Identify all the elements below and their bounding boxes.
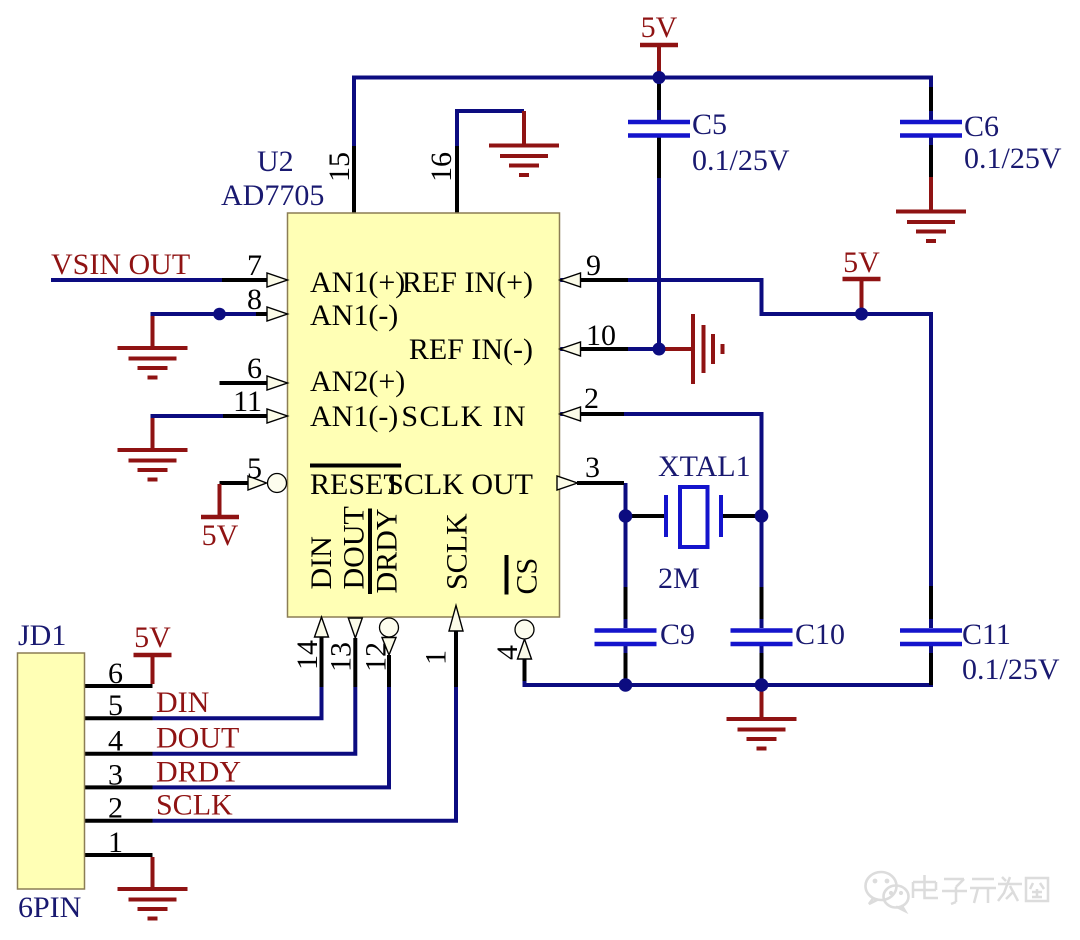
arrow U2 pin1 xyxy=(449,606,463,632)
svg-text:6: 6 xyxy=(108,657,123,690)
svg-text:2: 2 xyxy=(584,382,599,415)
pin stub U2 pin5 xyxy=(220,481,249,485)
ground stem below C10 xyxy=(760,687,764,718)
svg-text:5V: 5V xyxy=(641,11,678,44)
pin stub U2 pin10 xyxy=(580,347,628,351)
wire ground to U2 pin11 xyxy=(153,416,268,421)
arrow U2 pin4 xyxy=(518,639,532,659)
watermark char 2 (zi) xyxy=(942,879,967,904)
wire SCLK net JD1 pin2 to U2 pin1 xyxy=(153,687,457,821)
WIRES_NAVY xyxy=(51,78,931,821)
watermark char 5 (quan) xyxy=(1026,878,1048,901)
pin stub JD1 pin5 xyxy=(85,716,153,720)
ground symbol below C10 xyxy=(727,719,797,749)
svg-text:C6: C6 xyxy=(964,110,999,143)
capacitor C11 plates xyxy=(900,631,962,645)
U2 pin name DRDY overline (rotated) xyxy=(368,509,372,595)
svg-text:REF IN(+): REF IN(+) xyxy=(402,266,533,299)
wire U2 pin16 to ground stem xyxy=(457,111,524,213)
pin stub U2 pin9 xyxy=(580,278,628,282)
capacitor C9 plates xyxy=(595,631,657,645)
svg-text:7: 7 xyxy=(247,249,262,282)
pin stub JD1 pin4 xyxy=(85,752,153,756)
wire U2 pin10 to C5 bottom / ground junction xyxy=(560,347,659,351)
pin stub C10 top xyxy=(760,587,764,619)
capacitor C6 plates xyxy=(900,122,962,136)
ground symbol rotated at REF IN(-) xyxy=(693,314,723,384)
wire C5 bottom lead down to pin10 junction xyxy=(657,138,661,350)
svg-text:VSIN OUT: VSIN OUT xyxy=(51,248,190,281)
pin stub U2 pin4 xyxy=(523,659,527,681)
svg-text:2M: 2M xyxy=(658,562,700,595)
pin stub C6 top xyxy=(929,87,933,111)
pin stub C9 bottom xyxy=(624,653,628,685)
power bar 5V at U2 pin5 xyxy=(201,515,239,520)
wire DOUT net JD1 pin4 to U2 pin13 xyxy=(153,687,356,754)
svg-text:0.1/25V: 0.1/25V xyxy=(692,144,790,177)
pin stub XTAL1 right xyxy=(721,514,758,518)
svg-text:6PIN: 6PIN xyxy=(18,891,81,924)
wire ground to U2 pin8 xyxy=(153,314,268,319)
svg-text:5V: 5V xyxy=(134,621,171,654)
arrow U2 pin7 xyxy=(267,273,288,287)
arrow U2 pin3 (output) xyxy=(557,476,578,490)
pin stub U2 pin12 xyxy=(387,655,391,687)
U2 pin name RESET overline xyxy=(310,464,401,468)
svg-text:AN1(-): AN1(-) xyxy=(310,299,398,332)
svg-text:15: 15 xyxy=(323,152,356,182)
pin stub C10 bottom xyxy=(760,653,764,685)
5V stem right rail xyxy=(860,280,864,311)
crystal XTAL1 xyxy=(666,487,721,547)
arrow U2 pin11 xyxy=(267,409,288,423)
wire VSIN OUT to U2 pin7 xyxy=(51,278,267,282)
5V stem top rail xyxy=(657,45,661,74)
junction dot 5V right rail xyxy=(855,308,868,321)
svg-text:SCLK OUT: SCLK OUT xyxy=(387,468,533,501)
svg-text:5V: 5V xyxy=(843,246,880,279)
svg-text:8: 8 xyxy=(247,283,262,316)
pin stub U2 pin8 xyxy=(256,312,267,316)
svg-text:XTAL1: XTAL1 xyxy=(658,450,751,483)
arrow U2 pin2 xyxy=(560,407,581,421)
pin stub C6 bottom xyxy=(929,145,933,177)
capacitor C5 plates xyxy=(628,122,690,136)
svg-text:6: 6 xyxy=(247,352,262,385)
junction dot on U2 pin8 wire xyxy=(213,308,226,321)
svg-text:4: 4 xyxy=(108,725,123,758)
svg-text:2: 2 xyxy=(108,792,123,825)
5V stem at JD1 pin6 xyxy=(151,657,155,684)
U2 pin name CS overline (rotated) xyxy=(505,555,509,595)
junction dot XTAL1 right xyxy=(755,509,769,523)
svg-text:DRDY: DRDY xyxy=(156,755,241,788)
svg-text:10: 10 xyxy=(586,319,616,352)
svg-text:1: 1 xyxy=(108,826,123,859)
svg-text:5: 5 xyxy=(247,452,262,485)
svg-text:AD7705: AD7705 xyxy=(221,179,324,212)
svg-text:C9: C9 xyxy=(660,618,695,651)
arrow U2 pin14 xyxy=(315,617,329,637)
ground symbol at U2 pin16 net xyxy=(489,146,559,176)
svg-text:DIN: DIN xyxy=(156,686,209,719)
arrow U2 pin13 (output) xyxy=(348,618,362,638)
pin stub U2 pin2 xyxy=(580,412,624,416)
svg-text:SCLK: SCLK xyxy=(156,789,233,822)
inversion bubble U2 pin12 xyxy=(380,618,399,637)
wire DRDY net JD1 pin3 to U2 pin12 xyxy=(153,687,390,787)
arrow U2 pin8 xyxy=(267,307,288,321)
pin stub U2 pin14 xyxy=(320,637,324,687)
pin stub U2 pin7 xyxy=(222,278,267,282)
pin stub C5 bottom xyxy=(657,138,661,179)
ground stem U2 pin8 xyxy=(151,316,155,347)
WATERMARK xyxy=(866,872,909,911)
watermark char 3 (kai) xyxy=(970,879,996,903)
svg-text:9: 9 xyxy=(586,249,601,282)
wire U2 pin2 to XTAL1 right node and C10 top xyxy=(560,414,762,628)
wire U2 pin9 to 5V right rail and down to C11 xyxy=(560,280,931,628)
arrow U2 pin5 xyxy=(248,476,267,490)
arrow U2 pin9 xyxy=(560,273,581,287)
pin arrows xyxy=(248,273,581,659)
svg-text:5: 5 xyxy=(108,689,123,722)
ground stem C6 bottom xyxy=(929,177,933,211)
pin stub C11 bottom xyxy=(929,653,933,685)
svg-text:16: 16 xyxy=(425,152,458,182)
power bar 5V top xyxy=(640,43,678,48)
wire CS net: U2 pin4 down, along bottom, up to C11 bottom xyxy=(525,646,932,685)
wire C10 bottom lead xyxy=(760,646,764,685)
svg-text:11: 11 xyxy=(233,385,262,418)
svg-text:JD1: JD1 xyxy=(18,619,66,652)
svg-text:AN1(+): AN1(+) xyxy=(310,266,405,299)
wire DIN net JD1 pin5 to U2 pin14 xyxy=(153,687,322,718)
watermark char 1 (dian) xyxy=(913,875,938,898)
svg-text:REF IN(-): REF IN(-) xyxy=(409,333,533,366)
ground stem rotated at REF IN(-) xyxy=(663,347,692,351)
svg-text:C5: C5 xyxy=(692,108,727,141)
svg-text:1: 1 xyxy=(420,650,453,665)
pin stub JD1 pin6 xyxy=(85,684,153,688)
watermark logo eyes xyxy=(873,879,878,884)
pin stub XTAL1 left xyxy=(629,514,666,518)
svg-text:5V: 5V xyxy=(202,519,239,552)
svg-text:DRDY: DRDY xyxy=(371,508,404,593)
pin stub C5 top xyxy=(657,84,661,110)
capacitor C10 plates xyxy=(731,631,793,645)
wire C6 bottom lead sliver xyxy=(929,138,933,147)
IC U2 AD7705 body xyxy=(288,213,560,617)
junction dot XTAL1 left xyxy=(619,509,633,523)
junction dot 5V top rail / C5 xyxy=(653,71,666,84)
ground stem U2 pin16 net xyxy=(522,111,526,145)
svg-text:DOUT: DOUT xyxy=(338,506,371,589)
svg-text:3: 3 xyxy=(108,758,123,791)
inversion bubble U2 pin4 xyxy=(515,620,534,639)
svg-text:CS: CS xyxy=(511,558,544,595)
pin stub U2 pin13 xyxy=(353,638,357,687)
BLACK_STUBS xyxy=(85,84,931,855)
wire C5 top lead from 5V rail junction xyxy=(657,78,661,121)
5V stem at U2 pin5 xyxy=(218,484,222,516)
junction dot C5 bottom / pin10 xyxy=(653,343,666,356)
arrow U2 pin12 (output) xyxy=(382,638,396,656)
ground stem JD1 pin1 xyxy=(151,857,155,888)
pin stub U2 pin15 xyxy=(352,146,356,213)
svg-text:SCLK IN: SCLK IN xyxy=(401,400,527,433)
pin stub U2 pin6 xyxy=(220,381,268,385)
pin stub C9 top xyxy=(624,587,628,619)
pin stub U2 pin3 xyxy=(577,481,624,485)
watermark char 4 (fa) xyxy=(998,877,1022,901)
watermark logo chat bubble large xyxy=(866,872,897,900)
arrow U2 pin10 xyxy=(560,342,581,356)
svg-text:12: 12 xyxy=(360,642,393,672)
watermark logo chat bubble small xyxy=(884,886,909,908)
connector JD1 body xyxy=(18,653,85,889)
ground stem U2 pin11 xyxy=(151,418,155,449)
pin stub U2 pin11 xyxy=(223,414,267,418)
junction dot C9 bottom xyxy=(619,678,633,692)
power bar 5V right xyxy=(843,277,881,282)
ground symbol at C6 xyxy=(896,212,966,242)
svg-text:4: 4 xyxy=(491,645,524,660)
pin stub U2 pin1 xyxy=(454,631,458,687)
svg-text:C11: C11 xyxy=(962,618,1011,651)
junction dot C10 bottom / ground xyxy=(755,678,769,692)
svg-text:U2: U2 xyxy=(257,145,294,178)
red power stems xyxy=(153,45,932,888)
wire net 5V top rail: U2 pin15 up, across top, down to C6 xyxy=(354,78,931,214)
pin stub C11 top xyxy=(929,586,933,619)
ground symbol at U2 pin11 xyxy=(118,450,188,480)
svg-text:AN1(-): AN1(-) xyxy=(310,400,398,433)
arrow U2 pin6 xyxy=(267,376,288,390)
ground symbol at JD1 pin1 xyxy=(118,889,188,919)
pin stub U2 pin16 xyxy=(455,146,459,213)
pin stub JD1 pin2 xyxy=(85,819,153,823)
svg-text:DOUT: DOUT xyxy=(156,722,239,755)
svg-text:3: 3 xyxy=(585,451,600,484)
svg-text:C10: C10 xyxy=(795,618,845,651)
wire C9 bottom lead xyxy=(624,646,628,685)
svg-text:DIN: DIN xyxy=(305,536,338,589)
svg-text:0.1/25V: 0.1/25V xyxy=(964,142,1062,175)
pin stub JD1 pin3 xyxy=(85,785,153,789)
ground symbol at U2 pin8 xyxy=(118,348,188,378)
pin stub JD1 pin1 xyxy=(85,853,153,857)
svg-text:13: 13 xyxy=(325,642,358,672)
svg-text:0.1/25V: 0.1/25V xyxy=(962,653,1060,686)
wire U2 pin3 to XTAL1 left node and C9 top xyxy=(624,483,628,628)
svg-text:SCLK: SCLK xyxy=(441,513,474,590)
svg-text:AN2(+): AN2(+) xyxy=(310,365,405,398)
inversion bubble U2 pin5 xyxy=(268,474,287,493)
svg-text:14: 14 xyxy=(291,640,324,670)
power bar 5V at JD1 pin6 xyxy=(134,653,172,658)
